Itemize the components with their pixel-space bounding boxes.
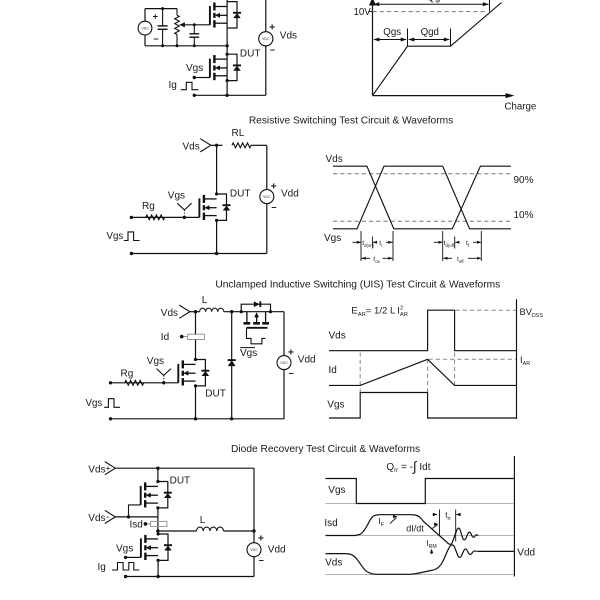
svg-text:Isd: Isd	[130, 519, 143, 530]
inductor L	[200, 308, 224, 312]
node Id sense dot	[180, 335, 184, 339]
Id current sense box	[188, 334, 205, 339]
svg-text:Vgs: Vgs	[147, 356, 164, 367]
dashed IAR level	[429, 358, 517, 360]
svg-text:+: +	[258, 533, 264, 544]
Vds waveform trace	[333, 166, 511, 229]
node C1 bottom	[161, 44, 164, 47]
gate pulse symbol	[124, 232, 140, 241]
DUT gate lead to source	[129, 505, 141, 517]
wire Q3 source	[157, 560, 159, 576]
node DUT source bottom	[215, 252, 218, 255]
td(on) arrow	[353, 241, 361, 243]
svg-text:Vds: Vds	[183, 142, 200, 153]
gate charge plot y-axis	[372, 0, 374, 96]
node Q3 diode bottom	[157, 559, 160, 562]
wire Q1 drain rail to top edge	[226, 0, 228, 46]
Vds- probe symbol	[105, 510, 116, 523]
wire DUT drain rail	[226, 46, 228, 96]
svg-text:Vgs: Vgs	[324, 233, 341, 244]
Q2 body diode branch	[241, 304, 270, 312]
node L right	[230, 310, 233, 313]
svg-text:Isd: Isd	[324, 518, 337, 529]
svg-text:Vgs: Vgs	[168, 191, 185, 202]
probe Vgs	[177, 203, 184, 210]
svg-text:Vdd: Vdd	[517, 547, 535, 558]
Qgs measure arrows	[374, 39, 406, 41]
node Q3 gate input	[124, 556, 127, 559]
trr tick right	[455, 510, 457, 542]
clamp diode branch wire	[231, 312, 233, 360]
potentiometer wiper arrow	[179, 22, 185, 27]
svg-text:DUT: DUT	[240, 49, 261, 60]
Q2 body arrow	[256, 314, 258, 324]
Qgs tick	[407, 29, 409, 47]
x-axis arrow	[506, 93, 515, 98]
tick t0 off	[442, 231, 444, 261]
svg-text:Vgs: Vgs	[107, 231, 124, 242]
Vds probe symbol	[200, 139, 211, 152]
wire Vdd right bottom	[253, 557, 255, 577]
node DUT diode top	[226, 53, 229, 56]
Q2 gate lead and inverted pulse	[247, 328, 266, 344]
svg-text:L: L	[200, 515, 206, 526]
clamp MOSFET Q2 channel	[244, 322, 251, 325]
svg-text:L: L	[202, 295, 208, 306]
double pulse symbol	[112, 563, 139, 571]
voltage source VDC Vdd	[277, 356, 291, 370]
svg-text:−: −	[270, 45, 275, 55]
svg-text:Vdd: Vdd	[298, 354, 316, 365]
wire top mid	[224, 311, 284, 313]
svg-text:Vds: Vds	[88, 464, 105, 475]
wire wiper to gate	[185, 24, 210, 26]
svg-text:Qgd: Qgd	[421, 27, 439, 38]
voltage source VDC Vdd	[247, 543, 261, 557]
node DUT source bottom	[194, 417, 197, 420]
node bottom left	[130, 252, 133, 255]
IF pointer arrow	[390, 518, 397, 524]
wire Vdd right bottom	[266, 204, 268, 254]
node DUT drain top	[156, 467, 159, 470]
Isd sense lead	[147, 523, 150, 525]
svg-text:Vds: Vds	[325, 557, 342, 568]
diode recovery right axis	[513, 456, 515, 577]
svg-text:DUT: DUT	[205, 388, 226, 399]
tick tr end	[392, 231, 394, 261]
svg-text:Vgs: Vgs	[86, 398, 103, 409]
wire DUT gate	[194, 77, 210, 79]
probe Vgs	[157, 369, 164, 376]
svg-text:+: +	[269, 23, 275, 34]
Qgd measure arrows	[409, 39, 449, 41]
svg-text:Vds: Vds	[88, 513, 105, 524]
10V dashed level	[373, 11, 488, 13]
node DUT source on bottom wire	[225, 94, 228, 97]
wire bottom	[126, 576, 254, 578]
IRM up arrow	[431, 550, 433, 554]
dashed BVDSS level	[456, 309, 517, 311]
transistor Q3 (bottom driver)	[141, 534, 172, 560]
svg-text:VDC: VDC	[250, 548, 258, 552]
Qg measure line	[374, 3, 489, 5]
node Isd sense dot	[144, 522, 148, 526]
node Q2 diode left	[240, 310, 243, 313]
Q2 diode	[254, 301, 260, 307]
trr tick left	[439, 510, 441, 536]
Qgd tick	[450, 29, 452, 47]
svg-text:Vgs: Vgs	[116, 543, 133, 554]
gate charge plot x-axis	[373, 95, 508, 97]
tr arrows	[373, 241, 377, 244]
node Q2 diode right	[269, 310, 272, 313]
svg-text:Vgs: Vgs	[327, 400, 344, 411]
gate charge waveform Vgs curve	[373, 3, 502, 96]
svg-text:Vgs: Vgs	[328, 485, 345, 496]
svg-text:Rg: Rg	[121, 368, 134, 379]
node bottom left	[193, 94, 196, 97]
svg-text:+: +	[271, 181, 277, 192]
node drain top	[194, 310, 197, 313]
gray reference line Vds low	[326, 574, 514, 576]
gate charge circuit: left supply box top wire	[145, 8, 177, 10]
node pot bottom	[176, 44, 179, 47]
wire L branch right	[224, 530, 255, 532]
wire DUT source	[195, 386, 197, 419]
svg-text:10%: 10%	[514, 210, 534, 221]
svg-text:Vdd: Vdd	[268, 544, 286, 555]
t_on span arrows	[362, 257, 366, 260]
Q2 drain stub	[246, 312, 248, 324]
node L branch	[156, 529, 159, 532]
svg-text:+: +	[288, 347, 294, 358]
svg-text:+: +	[153, 12, 158, 22]
wire source	[216, 220, 218, 253]
node Vgs measurement	[193, 76, 196, 79]
Id sense lead	[184, 336, 188, 338]
Vds waveform trace	[329, 310, 516, 351]
wire RL to right rail	[251, 144, 267, 146]
10V tick	[369, 11, 373, 13]
svg-text:Vds: Vds	[161, 308, 178, 319]
capacitor C2	[193, 25, 195, 34]
node gate drive input	[130, 216, 133, 219]
svg-text:Vds: Vds	[329, 330, 346, 341]
resistor RL	[232, 143, 251, 148]
node C1 top	[161, 7, 164, 10]
y-axis top arrow	[369, 0, 376, 6]
voltage source VDC (gate supply)	[138, 21, 152, 35]
wire gate from Rg	[131, 216, 199, 218]
wire Vds supply top	[265, 0, 267, 32]
transistor DUT (gate charge)	[210, 54, 241, 80]
svg-text:Vds: Vds	[280, 30, 297, 41]
wire DUT drain	[157, 468, 159, 481]
wire Vds supply bottom	[265, 46, 267, 95]
clamp diode D1	[228, 360, 236, 366]
node DUT diode bottom	[194, 384, 197, 387]
Vgs waveform trace	[326, 479, 514, 504]
transistor DUT (resistive)	[199, 194, 230, 220]
wire circuit bottom	[194, 94, 265, 96]
node bottom left	[124, 575, 127, 578]
svg-text:RL: RL	[232, 128, 245, 139]
svg-text:Rg: Rg	[142, 201, 155, 212]
td(off) arrow	[434, 241, 442, 243]
gate pulse symbol	[104, 399, 120, 408]
node DUT diode top	[215, 192, 218, 195]
node DUT diode bottom	[226, 79, 229, 82]
node gate-source tie	[127, 515, 130, 518]
node bottom left	[109, 417, 112, 420]
dashed vertical t3	[454, 353, 456, 386]
wire Q3 gate	[126, 556, 141, 558]
svg-text:Vgs: Vgs	[240, 348, 257, 359]
capacitor C1	[162, 9, 164, 26]
node DUT diode top	[194, 358, 197, 361]
svg-text:Ig: Ig	[98, 562, 106, 573]
svg-text:Unclamped Inductive Switching: Unclamped Inductive Switching (UIS) Test…	[215, 280, 500, 291]
tick tf end	[480, 231, 482, 261]
Qg right tick	[489, 0, 491, 12]
svg-text:VDC: VDC	[280, 361, 288, 365]
Vds probe symbol	[179, 305, 190, 318]
wire left box bottom	[145, 45, 227, 47]
Q2 gate bar	[247, 327, 268, 329]
wire drain down	[195, 312, 197, 335]
transistor DUT (UIS)	[178, 360, 209, 386]
inductor L	[197, 527, 224, 531]
Vds+ probe symbol	[105, 462, 116, 475]
node L right on Vdd rail	[252, 529, 255, 532]
node Q3 diode top	[157, 532, 160, 535]
svg-text:90%: 90%	[514, 175, 534, 186]
svg-text:Vdd: Vdd	[281, 188, 299, 199]
svg-text:VDC: VDC	[262, 37, 270, 41]
svg-text:Id: Id	[161, 332, 169, 343]
svg-text:dI/dt: dI/dt	[406, 524, 424, 534]
gate current pulse symbol	[181, 82, 199, 89]
dashed vertical t1	[359, 353, 361, 393]
svg-text:Qg: Qg	[427, 0, 440, 3]
svg-text:−: −	[153, 34, 158, 44]
svg-text:Charge: Charge	[505, 101, 537, 112]
node gate input	[109, 381, 112, 384]
trr arrows	[433, 514, 438, 516]
svg-text:Vds: Vds	[326, 154, 343, 165]
dashed 10% level	[333, 220, 510, 222]
wire Vds- to rail	[115, 516, 158, 518]
svg-text:DUT: DUT	[170, 476, 191, 487]
svg-text:Ig: Ig	[169, 80, 177, 91]
wire Vdd right top	[253, 468, 255, 543]
node DUT diode bottom	[215, 219, 218, 222]
dashed 90% level	[333, 173, 510, 175]
tick t0 on	[360, 231, 362, 261]
node DUT diode top	[156, 480, 159, 483]
Vgs waveform trace	[333, 166, 511, 229]
svg-text:Vgs: Vgs	[186, 63, 203, 74]
resistor Rg	[146, 215, 165, 220]
node C2 top	[193, 23, 196, 26]
svg-text:Resistive Switching Test Circu: Resistive Switching Test Circuit & Wavef…	[249, 115, 453, 126]
svg-text:VDC: VDC	[263, 195, 271, 199]
svg-text:Qgs: Qgs	[383, 27, 401, 38]
Isd waveform trace	[326, 515, 479, 545]
svg-text:Diode Recovery Test Circuit &: Diode Recovery Test Circuit & Waveforms	[231, 444, 420, 455]
wire drain	[216, 145, 218, 194]
voltage source VDC Vdd	[260, 190, 274, 204]
Vds waveform trace	[326, 545, 514, 574]
node drain top	[215, 144, 218, 147]
svg-text:10V: 10V	[354, 7, 372, 18]
node DUT diode bottom	[156, 506, 159, 509]
node Q1 source junction	[225, 44, 228, 47]
UIS right axis	[516, 299, 518, 419]
transistor Q1 (top current-source MOSFET)	[210, 2, 241, 28]
transistor DUT (diode recovery top)	[141, 482, 172, 508]
svg-text:VDC: VDC	[141, 27, 149, 31]
wire top left	[190, 311, 200, 313]
wire Vdd right bottom	[283, 370, 285, 419]
svg-text:−: −	[289, 369, 294, 379]
dI/dt pointer arrow	[432, 525, 437, 529]
wire Vdd right top	[283, 312, 285, 356]
label Vgs-bar overline	[240, 347, 255, 349]
gray reference line Vgs low	[326, 503, 514, 505]
Id waveform trace	[329, 359, 516, 385]
voltage source VDC Vds supply	[259, 32, 273, 46]
wire bottom	[131, 253, 266, 255]
svg-text:−: −	[271, 203, 276, 213]
wire Vdd right top	[266, 145, 268, 189]
svg-text:Qrr = -∫ Idt: Qrr = -∫ Idt	[386, 459, 430, 474]
svg-text:DUT: DUT	[230, 188, 251, 199]
svg-text:−: −	[259, 556, 264, 566]
wire VDC source left rail	[144, 9, 146, 22]
wire rail mid	[157, 508, 159, 534]
svg-text:Id: Id	[329, 365, 337, 376]
t_off span arrows	[443, 257, 447, 260]
tick td(off) end	[454, 237, 456, 249]
wire bottom	[111, 418, 285, 420]
Isd current sense box	[151, 521, 167, 526]
Vgs waveform trace	[329, 393, 516, 419]
wire top	[115, 467, 254, 469]
dashed vertical t2	[427, 359, 429, 392]
node C2 bottom	[193, 44, 196, 47]
resistor Rg	[125, 380, 144, 385]
node Q3 source bottom	[156, 575, 159, 578]
wire gate from Rg	[111, 382, 179, 384]
wire top	[211, 144, 223, 146]
Q2 source stub	[265, 312, 267, 324]
node clamp diode bottom	[230, 417, 233, 420]
tf arrows	[455, 241, 459, 244]
potentiometer R1	[176, 9, 178, 16]
wire L branch left	[158, 530, 197, 532]
tick td(on) end	[371, 237, 373, 249]
gray reference line Isd zero	[326, 535, 514, 537]
